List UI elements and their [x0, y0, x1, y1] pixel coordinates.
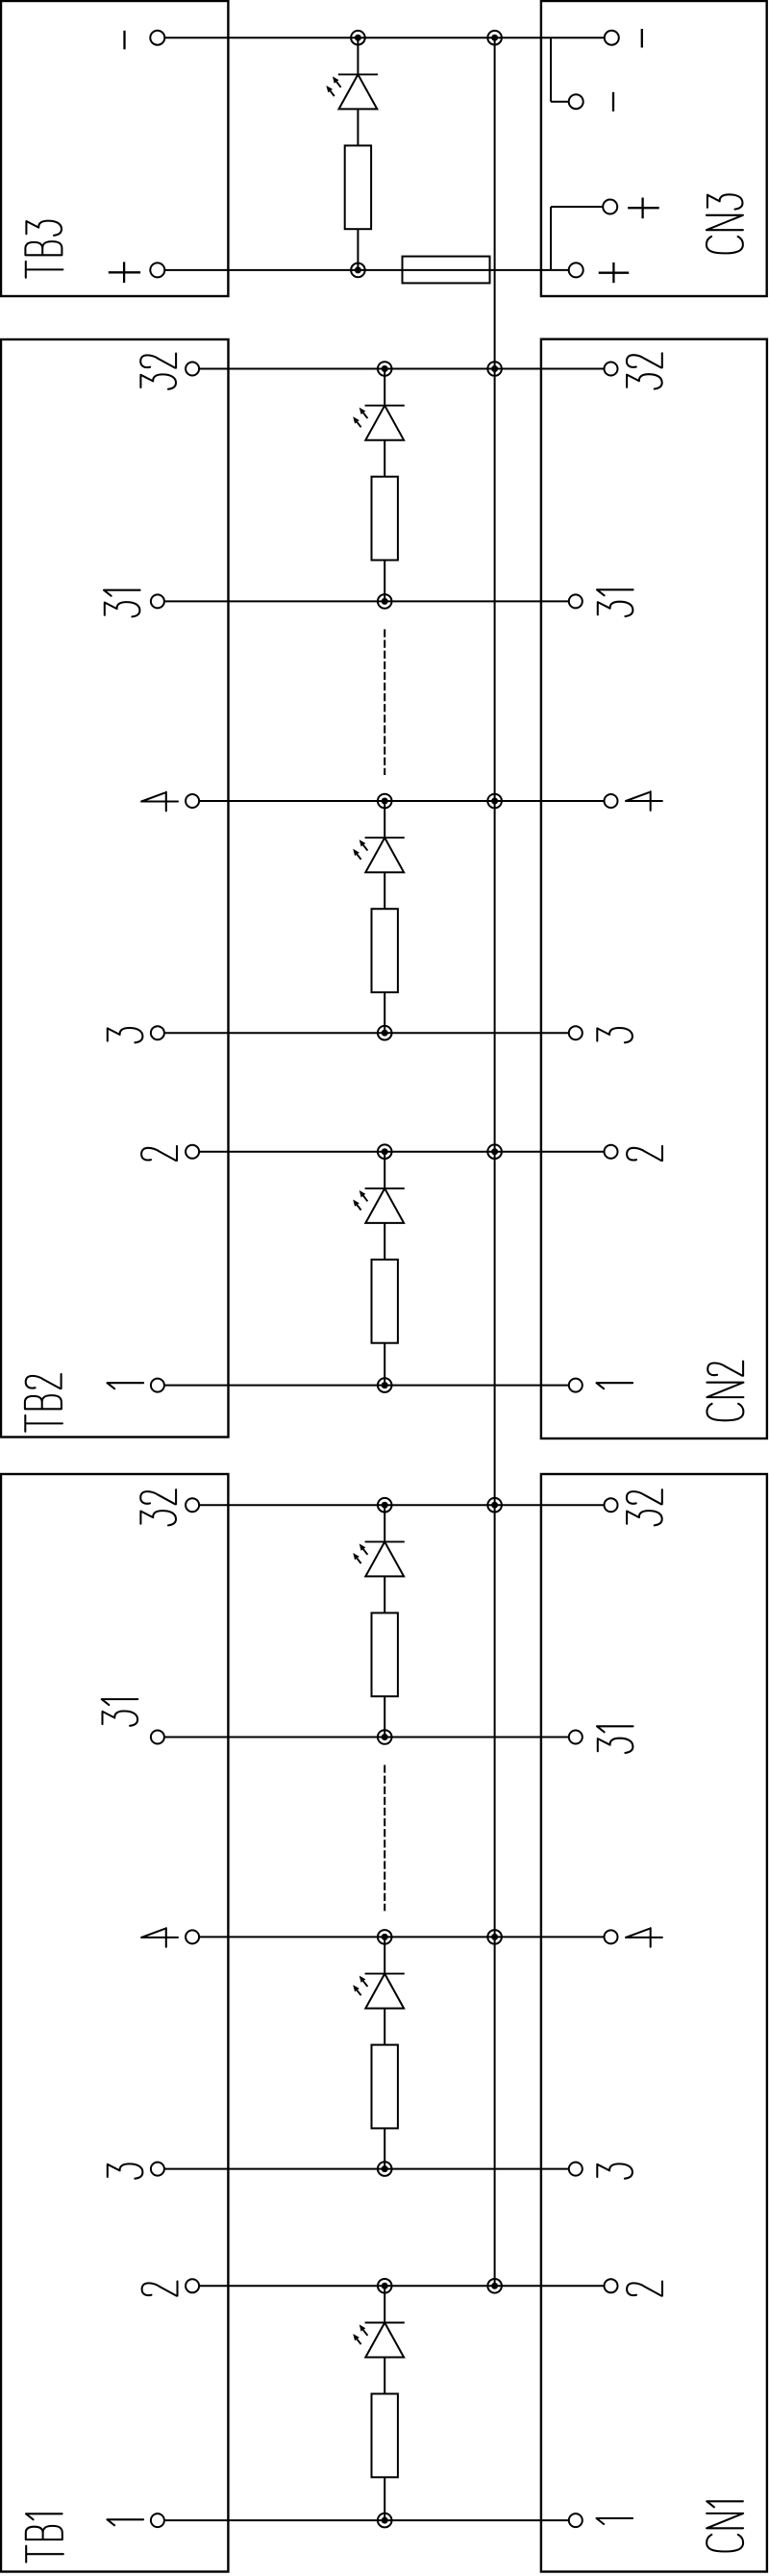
- terminal CN side pin 1 (TB1/CN1): [569, 2513, 583, 2527]
- label TB2: [25, 1374, 62, 1432]
- wire TB1/CN1 row 2: [200, 2285, 605, 2287]
- wire TB2/CN2 row 3: [164, 1032, 568, 1034]
- dashed continuation line TB1/CN1: [384, 1765, 385, 1912]
- LED TB1/CN1 2-1: [353, 2323, 405, 2358]
- LED TB2/CN2 32-31: [353, 406, 405, 440]
- terminal TB side pin 3 (TB2/CN2): [151, 1026, 164, 1039]
- label plus at CN3 pin4: [599, 263, 630, 283]
- label plus at TB3: [109, 262, 140, 283]
- label minus at CN3 pin1: [641, 29, 643, 48]
- junction bus / TB1/CN1 row 4: [487, 1930, 502, 1944]
- terminal CN3 plus pin 3: [603, 200, 617, 214]
- LED TB1/CN1 32-31: [353, 1541, 405, 1576]
- junction TB2/CN2 resistor 4-3 bottom: [378, 1026, 392, 1040]
- wire TB1/CN1 row 32: [200, 1504, 605, 1506]
- terminal TB side pin 2 (TB2/CN2): [186, 1145, 199, 1159]
- terminal CN side pin 2 (TB2/CN2): [605, 1145, 618, 1159]
- pin label 1 left (TB2/CN2): [108, 1383, 144, 1388]
- terminal CN side pin 2 (TB1/CN1): [605, 2279, 618, 2292]
- label CN3: [707, 194, 743, 253]
- terminal TB side pin 1 (TB2/CN2): [151, 1379, 164, 1392]
- wire D7 top section LED to resistor: [357, 109, 359, 145]
- junction TB1/CN1 LED 32-31 top: [378, 1498, 392, 1513]
- pin label 3 left (TB2/CN2): [108, 1028, 143, 1042]
- pin label 32 right (TB1/CN1): [627, 1489, 662, 1525]
- terminal CN3 minus pin 2: [569, 94, 583, 109]
- pin label 3 left (TB1/CN1): [108, 2163, 143, 2178]
- wire TB2/CN2 2-1 anode lead: [384, 1152, 385, 1188]
- connector block CN3 outline: [541, 1, 767, 296]
- pin label 4 left (TB2/CN2): [141, 792, 178, 812]
- resistor D7 top section: [345, 145, 371, 229]
- resistor TB2/CN2 32-31: [372, 477, 398, 561]
- wire TB2/CN2 4-3 LED to resistor: [384, 872, 385, 909]
- wire TB1/CN1 2-1 anode lead: [384, 2286, 385, 2322]
- junction TB1/CN1 LED 4-3 top: [378, 1930, 392, 1944]
- terminal TB3 plus pin: [150, 263, 164, 277]
- wire TB2/CN2 32-31 LED to resistor: [384, 440, 385, 477]
- wire TB1/CN1 32-31 resistor lead: [384, 1696, 385, 1737]
- junction resistor R7 / plus row: [351, 263, 365, 278]
- terminal block TB2 outline: [1, 339, 229, 1438]
- pin label 4 left (TB1/CN1): [141, 1928, 178, 1947]
- LED TB1/CN1 4-3: [353, 1974, 405, 2009]
- junction bus / TB2/CN2 row 2: [487, 1144, 502, 1159]
- pin label 4 right (TB2/CN2): [626, 791, 662, 811]
- wire TB1/CN1 row 4: [200, 1936, 605, 1938]
- wire CN3 plus pin3 drop: [550, 207, 552, 270]
- label TB1: [26, 2513, 63, 2562]
- pin label 2 left (TB2/CN2): [141, 1146, 177, 1161]
- wire TB2/CN2 row 2: [200, 1151, 605, 1153]
- pin label 31 left (TB2/CN2): [104, 590, 140, 617]
- LED TB2/CN2 4-3: [353, 838, 405, 872]
- wire TB2/CN2 row 4: [200, 800, 605, 802]
- wire D7 top section anode lead: [357, 38, 359, 74]
- terminal TB side pin 1 (TB1/CN1): [151, 2513, 164, 2527]
- wire TB1/CN1 32-31 LED to resistor: [384, 1576, 385, 1613]
- terminal CN side pin 32 (TB2/CN2): [605, 363, 618, 376]
- wire TB1/CN1 2-1 LED to resistor: [384, 2358, 385, 2394]
- junction TB1/CN1 resistor 4-3 bottom: [378, 2162, 392, 2176]
- wire TB2/CN2 2-1 resistor lead: [384, 1343, 385, 1386]
- junction LED D7 anode / minus row: [351, 31, 365, 45]
- pin label 2 left (TB1/CN1): [142, 2282, 178, 2296]
- pin label 3 right (TB1/CN1): [597, 2163, 633, 2178]
- junction bus / TB1/CN1 row 32: [487, 1498, 502, 1513]
- wire D7 top section resistor lead: [357, 229, 359, 270]
- LED TB2/CN2 2-1: [353, 1188, 405, 1223]
- terminal CN3 minus pin 1: [605, 31, 619, 45]
- resistor TB1/CN1 4-3: [372, 2045, 398, 2129]
- terminal CN side pin 32 (TB1/CN1): [605, 1498, 618, 1512]
- terminal CN side pin 3 (TB2/CN2): [569, 1026, 583, 1039]
- wire TB1/CN1 32-31 anode lead: [384, 1505, 385, 1541]
- resistor TB2/CN2 4-3: [372, 909, 398, 992]
- terminal CN side pin 4 (TB1/CN1): [605, 1930, 618, 1943]
- wire TB1/CN1 4-3 anode lead: [384, 1937, 385, 1973]
- terminal CN side pin 3 (TB1/CN1): [569, 2163, 583, 2176]
- terminal CN side pin 1 (TB2/CN2): [569, 1379, 583, 1392]
- connector block TB3 outline: [1, 1, 228, 296]
- terminal CN side pin 31 (TB2/CN2): [569, 594, 583, 608]
- wire TB2/CN2 4-3 resistor lead: [384, 992, 385, 1033]
- junction TB1/CN1 resistor 32-31 bottom: [378, 1730, 392, 1744]
- terminal TB side pin 4 (TB2/CN2): [186, 794, 199, 808]
- terminal TB side pin 3 (TB1/CN1): [151, 2163, 164, 2176]
- connector CN2 outline: [541, 339, 767, 1438]
- wire TB1/CN1 row 1: [164, 2519, 568, 2521]
- wire TB2/CN2 4-3 anode lead: [384, 801, 385, 838]
- label CN2: [707, 1362, 743, 1421]
- pin label 3 right (TB2/CN2): [597, 1028, 633, 1042]
- terminal CN side pin 31 (TB1/CN1): [569, 1731, 583, 1744]
- LED D7 top section: [326, 74, 378, 109]
- label TB3: [25, 221, 62, 278]
- terminal TB side pin 2 (TB1/CN1): [186, 2279, 199, 2292]
- fuse F1: [403, 257, 490, 284]
- wire TB1/CN1 row 31: [164, 1737, 568, 1738]
- wire TB1/CN1 4-3 resistor lead: [384, 2128, 385, 2168]
- pin label 32 right (TB2/CN2): [627, 353, 662, 388]
- wire TB2/CN2 row 1: [164, 1385, 568, 1387]
- pin label 1 left (TB1/CN1): [108, 2519, 144, 2525]
- resistor TB1/CN1 2-1: [372, 2394, 398, 2478]
- pin label 1 right (TB2/CN2): [597, 1383, 633, 1388]
- wire TB1/CN1 2-1 resistor lead: [384, 2477, 385, 2520]
- terminal TB side pin 31 (TB1/CN1): [151, 1731, 164, 1744]
- wire TB1/CN1 row 3: [164, 2168, 568, 2170]
- pin label 2 right (TB1/CN1): [627, 2282, 662, 2296]
- pin label 32 left (TB1/CN1): [140, 1489, 176, 1525]
- wire CN3 plus pin3 stub: [551, 206, 603, 208]
- junction TB2/CN2 resistor 2-1 bottom: [378, 1378, 392, 1392]
- wire TB2/CN2 2-1 LED to resistor: [384, 1223, 385, 1260]
- label CN1: [707, 2501, 743, 2551]
- terminal TB side pin 31 (TB2/CN2): [151, 594, 164, 608]
- wire TB3 plus row: [165, 269, 569, 271]
- junction TB2/CN2 resistor 32-31 bottom: [378, 594, 392, 609]
- junction TB1/CN1 LED 2-1 top: [378, 2279, 392, 2293]
- resistor TB2/CN2 2-1: [372, 1260, 398, 1343]
- terminal TB side pin 32 (TB2/CN2): [186, 363, 199, 376]
- junction TB1/CN1 resistor 2-1 bottom: [378, 2513, 392, 2528]
- resistor TB1/CN1 32-31: [372, 1613, 398, 1696]
- junction TB2/CN2 LED 32-31 top: [378, 362, 392, 376]
- wire TB2/CN2 row 31: [164, 600, 568, 602]
- wire TB1/CN1 4-3 LED to resistor: [384, 2009, 385, 2045]
- terminal block TB1 outline: [1, 1474, 228, 2572]
- junction bus / TB1/CN1 row 2: [487, 2279, 502, 2293]
- terminal TB side pin 32 (TB1/CN1): [186, 1498, 199, 1512]
- pin label 1 right (TB1/CN1): [597, 2518, 633, 2524]
- pin label 31 right (TB1/CN1): [597, 1726, 633, 1753]
- pin label 31 right (TB2/CN2): [597, 589, 633, 616]
- pin label 31 left (TB1/CN1): [102, 1699, 138, 1726]
- terminal TB3 minus pin: [150, 31, 164, 45]
- junction TB2/CN2 LED 2-1 top: [378, 1144, 392, 1159]
- terminal CN3 plus pin 4: [569, 263, 583, 277]
- pin label 2 right (TB2/CN2): [627, 1146, 662, 1161]
- dashed continuation line TB2/CN2: [384, 629, 385, 775]
- junction TB2/CN2 LED 4-3 top: [378, 794, 392, 809]
- label minus at CN3 pin2: [612, 92, 614, 112]
- connector CN1 outline: [541, 1474, 767, 2572]
- pin label 32 left (TB2/CN2): [140, 354, 176, 389]
- terminal CN side pin 4 (TB2/CN2): [605, 794, 618, 808]
- bus wire minus rail (vertical): [494, 38, 496, 2286]
- label plus at CN3 pin3: [628, 198, 659, 219]
- junction bus / TB2/CN2 row 32: [487, 362, 502, 376]
- terminal TB side pin 4 (TB1/CN1): [186, 1930, 199, 1943]
- wire TB2/CN2 row 32: [200, 368, 605, 370]
- wire TB2/CN2 32-31 anode lead: [384, 369, 385, 406]
- label minus at TB3: [123, 31, 125, 50]
- junction bus / TB2/CN2 row 4: [487, 794, 502, 809]
- wire CN3 minus pin2 drop: [550, 38, 552, 102]
- wire TB3 minus row: [165, 37, 605, 38]
- wire TB2/CN2 32-31 resistor lead: [384, 561, 385, 602]
- pin label 4 right (TB1/CN1): [626, 1928, 662, 1947]
- wire CN3 minus pin2 stub: [551, 101, 569, 103]
- junction minus row / bus: [487, 31, 502, 45]
